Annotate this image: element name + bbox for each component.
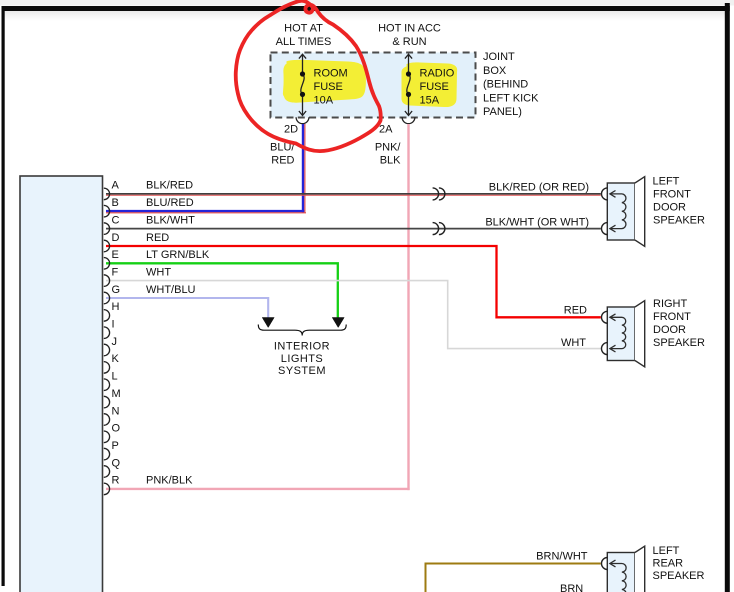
connector cavity 2D symbol (296, 117, 309, 123)
svg-text:RED: RED (146, 232, 169, 244)
svg-text:O: O (112, 423, 121, 435)
svg-text:BLK/WHT: BLK/WHT (146, 214, 195, 226)
svg-text:FRONT: FRONT (653, 189, 691, 201)
svg-text:ROOM: ROOM (314, 68, 348, 80)
wire D RED (106, 246, 601, 317)
svg-text:K: K (112, 353, 120, 365)
svg-text:BLK/RED: BLK/RED (146, 180, 193, 192)
connector pin K (104, 353, 120, 373)
red hand-drawn annotation circle around ROOM fuse (236, 1, 381, 151)
svg-text:PNK/: PNK/ (375, 142, 402, 154)
svg-text:M: M (112, 388, 121, 400)
joint box interior fill (271, 53, 476, 118)
svg-text:SPEAKER: SPEAKER (653, 215, 705, 227)
connector pin M (104, 388, 121, 408)
wire BLU/RED vertical (fuse 2D to pin B) (302, 124, 304, 212)
svg-text:BOX: BOX (483, 65, 507, 77)
speaker left rear wire-entry arc (602, 558, 608, 570)
svg-text:P: P (112, 440, 119, 452)
svg-text:DOOR: DOOR (653, 202, 686, 214)
svg-text:BRN/WHT: BRN/WHT (536, 550, 588, 562)
fuse RADIO FUSE 15A symbol (405, 54, 412, 115)
speaker left front door body (607, 177, 644, 247)
svg-text:& RUN: & RUN (392, 36, 426, 48)
svg-text:ALL TIMES: ALL TIMES (276, 36, 332, 48)
svg-text:B: B (112, 197, 119, 209)
fuse ROOM FUSE 10A symbol (299, 54, 306, 115)
yellow highlight over RADIO fuse (401, 62, 457, 107)
svg-text:15A: 15A (420, 94, 440, 106)
svg-text:BLK/WHT (OR WHT): BLK/WHT (OR WHT) (485, 216, 589, 228)
svg-text:Q: Q (112, 457, 121, 469)
svg-text:LT GRN/BLK: LT GRN/BLK (146, 249, 210, 261)
svg-text:E: E (112, 249, 119, 261)
svg-text:RIGHT: RIGHT (653, 298, 688, 310)
svg-text:LEFT: LEFT (653, 545, 680, 557)
connector pin I (104, 319, 115, 339)
joint box dashed border (271, 53, 476, 118)
svg-text:BLU/RED: BLU/RED (146, 197, 194, 209)
connector pin F (104, 266, 119, 286)
connector pin J (104, 336, 117, 356)
speaker left front door terminal arrows (610, 191, 616, 198)
wire A BLK/RED horizontal (106, 193, 601, 195)
svg-text:LEFT: LEFT (653, 176, 680, 188)
speaker right front door body (607, 301, 644, 367)
connector pin O (104, 423, 121, 443)
svg-text:A: A (112, 180, 120, 192)
connector pin E (104, 249, 119, 269)
svg-text:(BEHIND: (BEHIND (483, 79, 528, 91)
yellow highlight over ROOM fuse (283, 60, 366, 103)
speaker right front door coil (611, 317, 626, 348)
svg-text:2D: 2D (284, 123, 298, 135)
page frame left border (2, 6, 5, 586)
speaker left rear terminal arrow (610, 560, 616, 567)
inline connector )) on wire A (433, 188, 445, 200)
wire E LT GRN/BLK (106, 263, 338, 318)
svg-text:PNK/BLK: PNK/BLK (146, 475, 193, 487)
svg-text:RADIO: RADIO (420, 68, 455, 80)
top page strip (0, 0, 734, 6)
connector pin C (104, 214, 120, 234)
speaker left front door coil (611, 194, 626, 229)
svg-text:G: G (112, 284, 121, 296)
svg-text:INTERIOR: INTERIOR (274, 341, 330, 353)
svg-text:SYSTEM: SYSTEM (278, 365, 326, 377)
svg-text:JOINT: JOINT (483, 51, 515, 63)
svg-text:HOT IN ACC: HOT IN ACC (378, 22, 441, 34)
speaker left front door wire-entry arcs (602, 188, 608, 200)
svg-text:LEFT KICK: LEFT KICK (483, 92, 539, 104)
svg-text:DOOR: DOOR (653, 324, 686, 336)
connector pin L (104, 371, 118, 391)
speaker left rear body (607, 546, 644, 592)
connector pin H (104, 301, 120, 321)
connector pin Q (104, 457, 121, 477)
svg-text:FUSE: FUSE (314, 81, 343, 93)
connector pin G (104, 284, 120, 304)
svg-text:WHT: WHT (146, 266, 171, 278)
svg-text:F: F (112, 266, 119, 278)
speaker right front door terminal arrows (610, 314, 616, 321)
wire B BLU/RED horizontal (106, 210, 304, 212)
connector pin D (104, 232, 120, 252)
svg-text:10A: 10A (314, 94, 334, 106)
svg-text:2A: 2A (379, 123, 393, 135)
svg-text:WHT: WHT (561, 337, 586, 349)
wire PNK/BLK vertical (fuse 2A to pin R wire) (407, 124, 409, 490)
connector C1 body (18-pin, light blue) (20, 176, 103, 592)
arrow into interior lights (from E LT GRN/BLK) (332, 318, 344, 328)
svg-text:D: D (112, 232, 120, 244)
svg-text:SPEAKER: SPEAKER (653, 337, 705, 349)
page frame top border (2, 6, 730, 11)
arrow into interior lights (from G WHT/BLU) (262, 318, 274, 328)
svg-text:SPEAKER: SPEAKER (653, 570, 705, 582)
svg-text:PANEL): PANEL) (483, 106, 522, 118)
connector cavity 2A symbol (402, 117, 415, 123)
svg-text:BLK: BLK (380, 155, 401, 167)
svg-text:H: H (112, 301, 120, 313)
svg-text:N: N (112, 405, 120, 417)
inline connector )) on wire C (433, 223, 445, 235)
svg-text:FRONT: FRONT (653, 311, 691, 323)
svg-text:I: I (112, 319, 115, 331)
wire R PNK/BLK horizontal (106, 488, 410, 490)
connector pin N (104, 405, 120, 425)
connector pin A (104, 180, 120, 200)
connector pin P (104, 440, 119, 460)
svg-text:C: C (112, 214, 120, 226)
svg-text:RED: RED (564, 304, 587, 316)
svg-text:HOT AT: HOT AT (284, 22, 323, 34)
wire G WHT/BLU (106, 298, 268, 318)
connector pin B (104, 197, 119, 217)
svg-text:WHT/BLU: WHT/BLU (146, 284, 196, 296)
speaker right front door wire-entry arcs (602, 311, 608, 323)
svg-text:R: R (112, 475, 120, 487)
page frame right border (725, 3, 730, 592)
svg-text:BLK/RED (OR RED): BLK/RED (OR RED) (489, 182, 589, 194)
svg-text:BRN: BRN (560, 583, 583, 592)
speaker left rear coil (611, 564, 627, 592)
wire F WHT (106, 281, 601, 349)
connector pin R (104, 475, 120, 495)
svg-text:L: L (112, 371, 118, 383)
wire BRN/WHT to left rear speaker (426, 564, 601, 592)
underbrace interior lights system (258, 325, 346, 336)
svg-text:FUSE: FUSE (420, 81, 449, 93)
svg-text:J: J (112, 336, 118, 348)
svg-text:RED: RED (271, 155, 294, 167)
svg-text:REAR: REAR (653, 558, 684, 570)
svg-text:LIGHTS: LIGHTS (281, 353, 323, 365)
wire C BLK/WHT horizontal (106, 228, 601, 230)
